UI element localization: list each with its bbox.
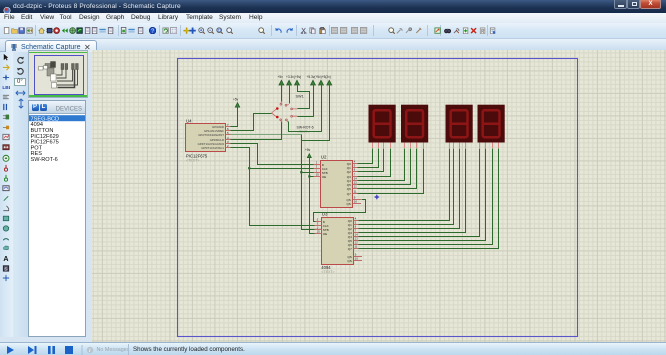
- IC U2 4094 shift register: [314, 155, 362, 208]
- wire arrow6 to STB trunk: [302, 86, 330, 141]
- svg-text:SW1: SW1: [296, 95, 304, 99]
- wire U2 Q2 to display: [358, 149, 384, 172]
- svg-text:+5v: +5v: [233, 98, 239, 102]
- wire U3 Q4 to display: [359, 149, 480, 237]
- IC U3 4094 shift register: [315, 212, 363, 265]
- wire U3 Q1 to display: [359, 149, 454, 225]
- 7-segment display D4 7SEG-BCD: [478, 105, 505, 148]
- wire GP0 to +5v terminal: [231, 108, 238, 127]
- junction node STB: [300, 171, 302, 173]
- svg-text:+3.3v(+5v): +3.3v(+5v): [286, 75, 301, 79]
- schematic canvas: [92, 50, 666, 342]
- wire arrow1 to contact 1: [281, 86, 283, 102]
- wire U3 Q2 to display: [359, 149, 460, 229]
- wire U3 Q3 to display: [359, 149, 466, 233]
- junction node OE: [308, 175, 310, 177]
- wire arrow5 to contact 5: [289, 86, 322, 132]
- wire branch U2 STB: [302, 172, 314, 174]
- devices panel: [28, 100, 86, 337]
- svg-text:<TEXT>: <TEXT>: [186, 159, 199, 163]
- power terminal +5v at U4: [233, 98, 240, 108]
- power terminal VCC arrow 5: [319, 80, 324, 85]
- wire U3 Q7 to display: [359, 149, 499, 249]
- svg-text:OE: OE: [322, 175, 326, 179]
- wire arrow2 to contact 2: [289, 86, 291, 104]
- power terminal VCC arrow 4: [311, 80, 316, 85]
- svg-text:U2: U2: [321, 155, 327, 160]
- svg-text:SW-ROT-6: SW-ROT-6: [31, 157, 58, 163]
- power terminal +5v at U2 OE: [305, 148, 311, 157]
- svg-text:Q7: Q7: [348, 247, 352, 251]
- svg-text:DEVICES: DEVICES: [56, 107, 82, 113]
- wire U2 Q3 to display: [358, 149, 391, 177]
- left mode toolbar: [0, 52, 13, 337]
- rotate/mirror controls: [13, 52, 28, 337]
- svg-text:OE: OE: [323, 232, 327, 236]
- svg-text:QS: QS: [346, 202, 350, 206]
- wire U2 Q6 to display: [358, 149, 417, 189]
- origin marker: [374, 194, 380, 200]
- power terminal VCC arrow 2: [287, 80, 292, 85]
- wire U2 Q5 to display: [358, 149, 411, 185]
- power net labels: [278, 75, 331, 79]
- wire GP3 to switch contact 6: [231, 122, 282, 140]
- rotary switch SW1 SW-ROT-6: [272, 95, 314, 134]
- svg-text:?: ?: [151, 29, 154, 35]
- IC U4 PIC12F675: [186, 119, 231, 163]
- svg-text:10: 10: [355, 257, 359, 261]
- wire OE trunk to U2 OE and U3 OE: [310, 158, 315, 234]
- svg-text:10: 10: [354, 200, 358, 204]
- wire STB trunk GP2 down to U3 STB: [302, 135, 315, 230]
- sheet border: [178, 59, 578, 337]
- wire arrow3 to contact 3: [298, 86, 310, 109]
- svg-text:GP2/T0CKI/AN2/INT: GP2/T0CKI/AN2/INT: [198, 133, 224, 137]
- 7-segment display D3 7SEG-BCD: [446, 105, 473, 148]
- svg-text:+5.3v(+5v)+5(2v): +5.3v(+5v)+5(2v): [307, 75, 331, 79]
- wire arrow4 to contact 4: [298, 86, 314, 117]
- wire GP5 to U2 CLK and U3 CLK trunk: [231, 148, 315, 226]
- wire cascade U2 QS to U3 D: [314, 200, 366, 222]
- junction node CLK: [248, 167, 250, 169]
- svg-text:LBL: LBL: [2, 85, 10, 91]
- wire branch U2 CLK: [250, 168, 314, 170]
- svg-text:Q6: Q6: [347, 187, 351, 191]
- wire branch U2 OE: [310, 176, 314, 178]
- menu bar: [0, 13, 666, 23]
- 7-segment display D1 7SEG-BCD: [369, 105, 396, 148]
- wire GP4 to U2 D: [231, 144, 314, 165]
- wire U3 Q6 to display: [359, 149, 493, 245]
- overview window: [28, 50, 88, 98]
- wire U3 Q5 to display: [359, 149, 486, 241]
- wire U3 Q0 to display: [359, 149, 450, 221]
- svg-text:QS: QS: [347, 259, 351, 263]
- title bar: [0, 0, 666, 13]
- wire U2 Q0 to display: [358, 149, 373, 164]
- power terminal VCC arrow 3: [295, 80, 300, 85]
- power terminal VCC arrow 6: [327, 80, 332, 85]
- wire U2 Q7 to display: [358, 149, 424, 194]
- tab bar: [0, 39, 666, 52]
- svg-text:U4: U4: [186, 119, 192, 124]
- svg-text:+5v: +5v: [278, 75, 284, 79]
- power terminal VCC arrow 1: [279, 80, 284, 85]
- svg-text:GP5/T1CKI/OSC1: GP5/T1CKI/OSC1: [201, 146, 224, 150]
- svg-text:<TEXT>: <TEXT>: [321, 270, 334, 274]
- svg-text:A: A: [3, 255, 8, 262]
- wire GP2 net (light): [231, 134, 302, 136]
- svg-text:Q7: Q7: [347, 192, 351, 196]
- wire U2 Q1 to display: [358, 149, 379, 168]
- svg-text:+5v: +5v: [305, 148, 311, 152]
- wire U2 Q4 to display: [358, 149, 405, 181]
- 7-segment display D2 7SEG-BCD: [401, 105, 428, 148]
- svg-text:Q2: Q2: [347, 170, 351, 174]
- toolbar: [0, 23, 666, 39]
- wire U3 D stub connect: [314, 221, 316, 223]
- wire GP1 to switch pole: [231, 114, 272, 131]
- status bar: [0, 342, 666, 355]
